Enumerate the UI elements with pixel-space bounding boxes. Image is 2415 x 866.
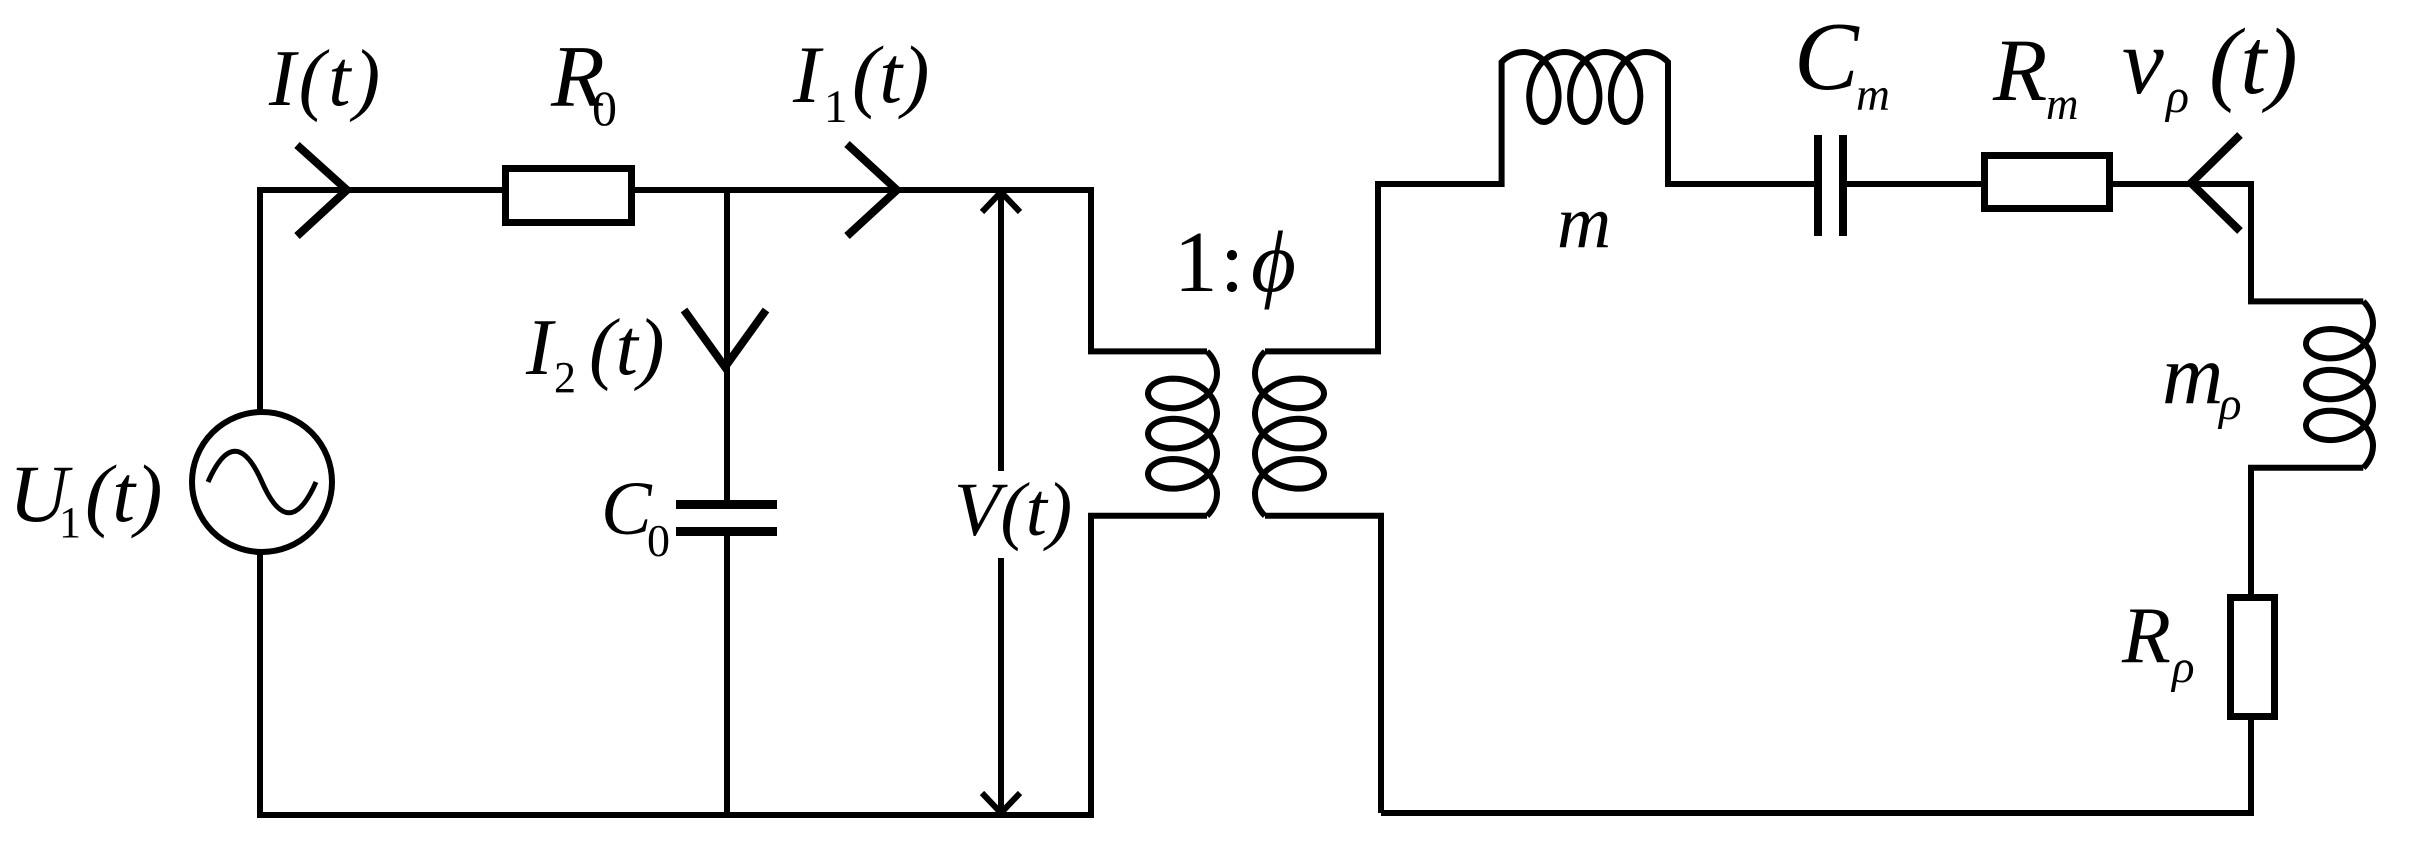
svg-text:I: I	[525, 304, 556, 392]
transformer secondary coil	[1255, 351, 1324, 515]
svg-text:(t): (t)	[85, 448, 162, 539]
svg-text:0: 0	[647, 515, 670, 566]
svg-text:1: 1	[59, 498, 81, 547]
wire: source bottom lead, bottom wire of left loop	[260, 552, 1094, 815]
svg-text:R: R	[1992, 22, 2047, 120]
voltage arrow V(t) shaft upper	[998, 193, 1004, 471]
label Cm	[1794, 3, 1890, 121]
label Rm	[1992, 22, 2079, 129]
label R0	[550, 29, 617, 136]
voltage arrow V(t) head top	[982, 192, 1020, 212]
svg-text::: :	[1220, 213, 1244, 310]
m_rho bottom lead to R_rho	[2251, 468, 2363, 596]
svg-text:1: 1	[824, 81, 848, 133]
label I2(t)	[525, 304, 665, 402]
arrow I1(t)	[847, 144, 897, 236]
transformer secondary top lead	[1265, 184, 1502, 351]
capacitor Cm plate left	[1814, 135, 1822, 236]
svg-text:ρ: ρ	[2164, 70, 2189, 123]
arrow I2(t)	[684, 310, 766, 367]
wire R_rho to bottom wire of right loop	[1381, 718, 2251, 813]
svg-text:ρ: ρ	[2217, 378, 2242, 430]
transformer primary bottom lead	[1091, 516, 1207, 815]
svg-text:ϕ: ϕ	[1251, 213, 1296, 310]
svg-text:I: I	[792, 29, 824, 120]
wire m to Cm	[1666, 181, 1816, 187]
svg-text:C: C	[1794, 3, 1860, 110]
wire Cm to Rm	[1845, 181, 1983, 187]
capacitor C0 plate top	[676, 500, 777, 509]
svg-text:0: 0	[592, 80, 617, 136]
svg-text:m: m	[1557, 181, 1611, 264]
svg-text:I(t): I(t)	[268, 35, 383, 123]
wire: source top lead, top wire of left loop	[260, 190, 1091, 412]
transformer secondary bottom lead	[1265, 516, 1381, 813]
svg-text:m: m	[2162, 328, 2223, 422]
capacitor Cm plate right	[1839, 135, 1847, 236]
svg-text:m: m	[2046, 79, 2079, 129]
label R_rho	[2121, 592, 2195, 693]
inductor m_rho coil	[2306, 301, 2373, 467]
label v_rho(t)	[2122, 10, 2298, 123]
voltage arrow V(t) head bottom	[982, 793, 1020, 813]
transformer primary top lead	[1091, 187, 1207, 351]
voltage arrow V(t) shaft lower	[998, 558, 1004, 812]
svg-text:v: v	[2122, 10, 2164, 114]
svg-text:ρ: ρ	[2170, 641, 2195, 693]
resistor Rm	[1985, 156, 2110, 209]
label I1(t)	[792, 29, 929, 133]
wire C0 branch lower	[724, 535, 730, 815]
AC source sine wave	[208, 451, 316, 513]
svg-text:m: m	[1856, 69, 1890, 121]
arrow I(t)	[297, 145, 347, 236]
svg-text:(t): (t)	[2209, 10, 2298, 114]
svg-text:V(t): V(t)	[954, 468, 1072, 552]
svg-text:(t): (t)	[589, 304, 665, 392]
arrow v_rho(t)	[2191, 135, 2240, 231]
inductor m	[1502, 52, 1668, 187]
svg-text:2: 2	[554, 353, 576, 402]
AC source U1	[192, 412, 332, 552]
transformer primary coil	[1148, 351, 1217, 515]
wire C0 branch upper	[724, 190, 730, 501]
label U1(t)	[9, 448, 162, 547]
capacitor C0 plate bottom	[676, 527, 777, 536]
svg-text:1: 1	[1174, 213, 1218, 310]
svg-text:C: C	[601, 467, 653, 551]
resistor R_rho	[2231, 598, 2275, 717]
label m_rho	[2162, 328, 2242, 430]
label 1:phi	[1174, 213, 1296, 310]
wire Rm to top-right corner, m_rho top lead	[2111, 184, 2363, 301]
label C0	[601, 467, 670, 566]
resistor R0	[506, 169, 632, 223]
svg-text:(t): (t)	[852, 29, 929, 120]
svg-text:R: R	[2121, 592, 2171, 680]
